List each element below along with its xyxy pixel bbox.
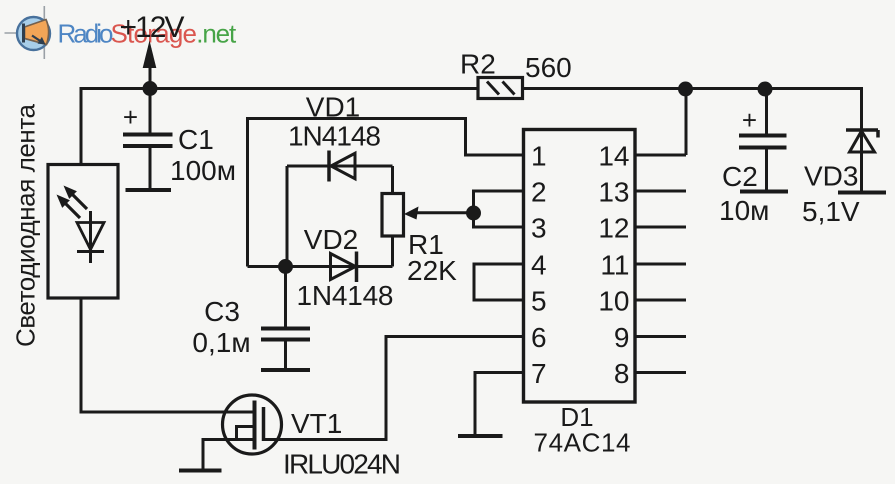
- diode VD2: [248, 252, 393, 283]
- svg-text:10: 10: [598, 286, 629, 317]
- pin numbers right: [598, 141, 629, 390]
- svg-text:7: 7: [531, 358, 547, 389]
- svg-text:Светодиодная лента: Светодиодная лента: [11, 103, 41, 347]
- svg-text:6: 6: [531, 322, 547, 353]
- wire top rail right: [523, 89, 862, 131]
- svg-text:1N4148: 1N4148: [288, 121, 381, 152]
- svg-text:10м: 10м: [719, 195, 769, 226]
- node +12V arrow: [143, 41, 157, 89]
- wire source to ground: [203, 440, 237, 470]
- resistor R2: [478, 78, 523, 99]
- capacitor C2: [739, 89, 788, 192]
- ground VT1: [179, 469, 222, 473]
- svg-text:12: 12: [598, 213, 629, 244]
- IC D1 box: [524, 130, 636, 403]
- svg-text:VT1: VT1: [291, 408, 342, 439]
- svg-text:74AC14: 74AC14: [534, 428, 631, 458]
- svg-text:4: 4: [531, 250, 547, 281]
- node junction C3: [278, 259, 293, 274]
- wire oscillator top branch to pin1: [248, 119, 524, 156]
- svg-text:+: +: [742, 105, 757, 135]
- svg-text:9: 9: [614, 322, 630, 353]
- wire pin7 to ground: [475, 373, 524, 435]
- node junction +12V: [143, 81, 158, 96]
- wire pin14 to rail: [685, 89, 688, 155]
- svg-text:22K: 22K: [407, 255, 457, 286]
- wire pin 11 stub: [635, 263, 686, 266]
- svg-text:C1: C1: [178, 124, 214, 155]
- svg-text:1: 1: [531, 141, 547, 172]
- svg-text:5,1V: 5,1V: [802, 196, 860, 227]
- wire pin6 to gate: [264, 337, 524, 440]
- wire pin 12 stub: [635, 226, 686, 229]
- svg-text:+12V: +12V: [120, 11, 185, 44]
- svg-text:100м: 100м: [170, 155, 236, 186]
- node junction pin14: [678, 82, 693, 97]
- pin numbers left: [531, 141, 547, 390]
- svg-text:0,1м: 0,1м: [192, 327, 250, 358]
- wire top rail left: [81, 89, 478, 164]
- wire pin 10 stub: [635, 299, 686, 302]
- svg-text:R2: R2: [460, 49, 496, 80]
- node junction wiper: [466, 206, 481, 221]
- wire pin 14 stub: [635, 154, 686, 157]
- node junction C2: [758, 82, 773, 97]
- svg-text:8: 8: [614, 358, 630, 389]
- svg-text:5: 5: [531, 286, 547, 317]
- svg-text:14: 14: [598, 141, 629, 172]
- svg-text:1N4148: 1N4148: [297, 280, 394, 311]
- svg-text:560: 560: [525, 52, 572, 83]
- svg-text:C2: C2: [722, 161, 758, 192]
- svg-text:IRLU024N: IRLU024N: [283, 449, 401, 480]
- wire pin 9 stub: [635, 335, 686, 338]
- wire pins 2-3: [474, 191, 524, 227]
- wire pin 13 stub: [635, 190, 686, 193]
- wire LED to drain: [81, 298, 255, 412]
- zener diode VD3: [838, 89, 886, 193]
- svg-text:13: 13: [598, 177, 629, 208]
- capacitor C1: [123, 89, 173, 191]
- svg-text:11: 11: [600, 250, 629, 281]
- svg-text:VD3: VD3: [804, 161, 858, 192]
- svg-text:2: 2: [531, 177, 547, 208]
- svg-text:VD1: VD1: [306, 92, 360, 123]
- svg-text:+: +: [123, 102, 138, 132]
- wire pin 8 stub: [635, 371, 686, 374]
- potentiometer R1: [382, 166, 474, 267]
- svg-text:C3: C3: [204, 296, 240, 327]
- ground pin7: [458, 434, 503, 438]
- svg-text:VD2: VD2: [304, 224, 358, 255]
- transistor VT1: [223, 395, 282, 454]
- LED strip box: [48, 165, 118, 299]
- svg-text:3: 3: [531, 213, 547, 244]
- logo radioStorage.net icon: [5, 6, 51, 59]
- IC right stubs: [635, 155, 686, 373]
- wire pins 4-5: [474, 264, 524, 300]
- wire oscillator left rail: [246, 117, 249, 267]
- LED symbol: [57, 186, 105, 264]
- diode VD1: [287, 151, 393, 267]
- capacitor C3: [261, 267, 310, 371]
